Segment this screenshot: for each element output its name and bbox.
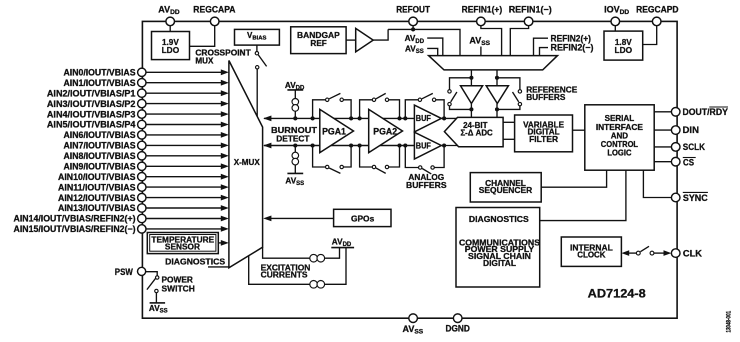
pin AIN6/IOUT/VBIAS — [64, 130, 229, 140]
wire serial to DOUT/RDY — [654, 111, 671, 113]
filter VARIABLE DIGITAL FILTER box — [515, 115, 573, 152]
pin AIN15/IOUT/VBIAS/REFIN2(−) — [14, 224, 229, 234]
svg-text:REF: REF — [310, 38, 326, 48]
op-amp reference amplifier — [356, 28, 374, 52]
pin AIN10/IOUT/VBIAS — [58, 172, 229, 182]
pin SYNC — [671, 192, 708, 202]
wire ref amp to REFOUT node — [373, 29, 388, 40]
pin AIN11/IOUT/VBIAS — [58, 182, 229, 192]
wire BUF1 output to ADC — [441, 117, 457, 119]
switch SW-vbias blade — [258, 55, 266, 67]
label POWER SWITCH — [162, 275, 195, 294]
switch internal clock to CLK — [621, 246, 671, 256]
pin AIN9/IOUT/VBIAS — [64, 162, 229, 172]
svg-text:AIN3/IOUT/VBIAS/P2: AIN3/IOUT/VBIAS/P2 — [47, 99, 136, 109]
wire ref mux to buffer 1 — [470, 70, 472, 86]
pin CS — [671, 157, 695, 167]
pin AIN0/IOUT/VBIAS — [64, 68, 229, 78]
wire serial to CS — [654, 161, 671, 163]
internal clock box — [561, 237, 621, 266]
wire SW-vbias to X-MUX — [256, 69, 258, 117]
svg-text:AIN8/IOUT/VBIAS: AIN8/IOUT/VBIAS — [64, 151, 136, 161]
pin PSW — [115, 267, 146, 277]
op-amp BUF2 — [414, 132, 441, 159]
svg-text:CURRENTS: CURRENTS — [261, 269, 308, 279]
svg-text:BUFFERS: BUFFERS — [526, 92, 565, 102]
pin REFOUT top — [396, 4, 430, 25]
svg-text:DGND: DGND — [446, 324, 471, 334]
svg-text:DOUT/RDY: DOUT/RDY — [683, 107, 728, 117]
svg-text:REGCAPD: REGCAPD — [636, 4, 679, 14]
temperature sensor box — [147, 233, 218, 254]
ADC 24-bit sigma-delta — [444, 117, 503, 146]
pin CLK — [671, 248, 702, 258]
wire ref buffer 1 to ADC — [470, 104, 472, 118]
bypass switch PGA1 top — [311, 93, 354, 120]
wire analog rail bottom — [263, 143, 414, 149]
wire REGCAPD to 1.8V LDO — [643, 26, 657, 45]
op-amp reference buffer 1 — [461, 86, 483, 104]
svg-text:PGA1: PGA1 — [322, 127, 346, 137]
svg-text:SCLK: SCLK — [683, 142, 706, 152]
label ANALOG BUFFERS — [406, 173, 447, 190]
svg-text:DIAGNOSTICS: DIAGNOSTICS — [165, 256, 225, 266]
pin AIN8/IOUT/VBIAS — [64, 151, 229, 161]
op-amp BUF1 — [414, 105, 441, 132]
svg-text:SYNC: SYNC — [683, 193, 708, 203]
pin AVSS bottom — [403, 314, 424, 336]
wire REGCAPA pin to 1.9V LDO — [190, 26, 215, 47]
wire ref buffer 2 to ADC — [496, 104, 498, 118]
svg-text:AIN1/IOUT/VBIAS: AIN1/IOUT/VBIAS — [64, 78, 136, 88]
power switch contact 1 — [156, 276, 159, 279]
svg-text:MUX: MUX — [195, 57, 214, 66]
svg-text:CLK: CLK — [683, 248, 703, 258]
wire channel sequencer to serial — [541, 170, 606, 187]
svg-text:FILTER: FILTER — [529, 135, 558, 144]
node ref buffer 1 output — [469, 107, 473, 111]
channel sequencer box — [470, 173, 541, 202]
bypass switch reference buffer 2 — [497, 78, 522, 110]
svg-text:AIN15/IOUT/VBIAS/REFIN2(−): AIN15/IOUT/VBIAS/REFIN2(−) — [14, 224, 136, 234]
wire excitation current 1 — [263, 247, 310, 258]
wire IOVDD to 1.8V LDO — [614, 26, 616, 31]
voltage source VBIAS box — [235, 29, 280, 45]
current source pair 2 — [310, 281, 325, 289]
svg-text:BUF: BUF — [416, 141, 431, 150]
wire serial to SYNC — [643, 170, 671, 197]
label EXCITATION CURRENTS — [261, 262, 311, 279]
op-amp PGA1 — [320, 109, 354, 152]
svg-text:AIN0/IOUT/VBIAS: AIN0/IOUT/VBIAS — [64, 68, 136, 78]
node buffer 2 input — [495, 76, 499, 80]
wire REFIN2(+) into reference mux — [534, 33, 592, 55]
pin REGCAPA top — [193, 4, 236, 25]
switch SW-vbias contact 2 — [256, 66, 259, 69]
serial interface and control logic box — [585, 105, 654, 170]
pin DGND bottom — [446, 314, 471, 334]
svg-text:REFOUT: REFOUT — [396, 4, 430, 14]
svg-text:13048-001: 13048-001 — [727, 310, 733, 332]
svg-text:DIAGNOSTICS: DIAGNOSTICS — [469, 214, 529, 224]
bypass switch reference buffer 1 — [448, 78, 472, 110]
svg-text:INTERFACE: INTERFACE — [596, 123, 644, 132]
power switch contact 2 — [155, 289, 158, 292]
pin AIN14/IOUT/VBIAS/REFIN2(+) — [14, 214, 229, 224]
svg-text:DIN: DIN — [683, 125, 700, 135]
regulator 1.9V LDO — [152, 32, 190, 60]
pin AIN1/IOUT/VBIAS — [64, 78, 229, 88]
svg-text:AIN14/IOUT/VBIAS/REFIN2(+): AIN14/IOUT/VBIAS/REFIN2(+) — [14, 214, 136, 224]
op-amp PGA2 — [369, 109, 403, 152]
wire diagnostics into X-MUX bottom — [208, 266, 229, 268]
node ref buffer 2 output — [495, 107, 499, 111]
svg-text:REFIN1(+): REFIN1(+) — [462, 4, 503, 14]
bypass switch PGA2 top — [358, 93, 402, 120]
svg-text:BUF: BUF — [416, 114, 431, 123]
svg-text:REFIN1(−): REFIN1(−) — [509, 4, 552, 14]
pin DIN — [671, 125, 699, 135]
wire ADC to filter top — [503, 121, 514, 123]
regulator 1.8V LDO — [604, 31, 643, 60]
svg-text:REFIN2(−): REFIN2(−) — [551, 43, 594, 53]
current source pair 1 — [310, 254, 325, 262]
wire REFOUT node to reference mux — [388, 29, 460, 55]
wire VBIAS to switch — [256, 45, 258, 51]
svg-text:REGCAPA: REGCAPA — [193, 4, 236, 14]
svg-text:CLOCK: CLOCK — [577, 249, 606, 259]
wire contact 2 to ground — [155, 293, 157, 303]
svg-text:AIN4/IOUT/VBIAS/P3: AIN4/IOUT/VBIAS/P3 — [47, 109, 136, 119]
svg-text:AIN9/IOUT/VBIAS: AIN9/IOUT/VBIAS — [64, 162, 136, 172]
wire serial to DIN — [654, 129, 671, 131]
svg-text:AIN6/IOUT/VBIAS: AIN6/IOUT/VBIAS — [64, 130, 136, 140]
pin AIN13/IOUT/VBIAS — [58, 203, 229, 213]
pin DOUT/RDY — [671, 107, 728, 117]
node REFOUT junction — [411, 27, 415, 31]
wire analog rail top — [263, 116, 414, 122]
wire current source 2 to AVDD bar — [325, 248, 346, 285]
svg-text:AIN7/IOUT/VBIAS: AIN7/IOUT/VBIAS — [64, 141, 136, 151]
wire AVDD stub to reference mux — [405, 34, 443, 55]
op-amp reference buffer 2 — [486, 86, 508, 104]
pin AIN7/IOUT/VBIAS — [64, 141, 229, 151]
label AVSS reference mux stub — [469, 35, 490, 55]
label CROSSPOINT MUX — [195, 48, 251, 65]
power bar AVDD excitation — [331, 237, 354, 248]
bypass switch PGA2 bottom — [358, 143, 402, 173]
multiplexer X-MUX body — [229, 61, 263, 268]
wire AVDD pin to 1.9V LDO — [169, 26, 171, 32]
svg-text:AIN10/IOUT/VBIAS: AIN10/IOUT/VBIAS — [58, 172, 136, 182]
chip outline border — [142, 21, 677, 318]
wire serial to SCLK — [654, 146, 671, 148]
wire diagnostics to serial — [540, 170, 626, 220]
wire ref mux to buffer 2 — [496, 70, 498, 86]
svg-text:Σ-Δ ADC: Σ-Δ ADC — [460, 128, 492, 138]
svg-text:PGA2: PGA2 — [373, 127, 397, 137]
label BURNOUT DETECT — [271, 125, 318, 143]
switch SW-vbias contact 1 — [255, 52, 258, 55]
wire REFIN1(-) to reference mux — [510, 26, 528, 56]
GPOs box — [334, 209, 391, 226]
power switch blade — [147, 278, 156, 289]
wire BUF2 output to ADC — [441, 145, 458, 147]
current source burnout bottom AVSS — [285, 143, 304, 187]
svg-text:LDO: LDO — [162, 45, 180, 55]
wire current source 1 to AVDD bar — [325, 248, 340, 259]
label REFERENCE BUFFERS — [526, 84, 577, 102]
svg-text:AIN2/IOUT/VBIAS/P1: AIN2/IOUT/VBIAS/P1 — [47, 88, 136, 98]
svg-text:AIN11/IOUT/VBIAS: AIN11/IOUT/VBIAS — [58, 182, 136, 192]
svg-text:LOGIC: LOGIC — [607, 148, 631, 157]
svg-text:SENSOR: SENSOR — [165, 243, 200, 252]
current source burnout top AVDD — [285, 81, 305, 121]
svg-text:LDO: LDO — [615, 45, 633, 55]
svg-text:DIGITAL: DIGITAL — [483, 258, 516, 268]
pin AVDD top — [158, 4, 180, 25]
pin AIN3/IOUT/VBIAS/P2 — [47, 99, 229, 109]
svg-text:GPOs: GPOs — [351, 213, 375, 223]
bypass switch PGA1 bottom — [311, 143, 354, 173]
pin IOVDD top — [604, 4, 629, 25]
svg-text:X-MUX: X-MUX — [234, 158, 261, 167]
wire REFOUT pin drop — [412, 26, 414, 30]
wire REFIN2(-) into reference mux — [540, 43, 594, 56]
svg-text:AIN13/IOUT/VBIAS: AIN13/IOUT/VBIAS — [58, 203, 136, 213]
svg-text:AIN5/IOUT/VBIAS/P4: AIN5/IOUT/VBIAS/P4 — [47, 120, 136, 130]
svg-text:PSW: PSW — [115, 267, 133, 277]
multiplexer reference trapezoid — [429, 56, 558, 70]
bandgap reference box — [291, 27, 346, 54]
svg-text:SWITCH: SWITCH — [162, 283, 195, 293]
wire REFIN1(+) to reference mux — [481, 26, 502, 56]
arrow GPOs to X-MUX — [263, 216, 333, 222]
bypass switch BUF top — [403, 93, 446, 120]
svg-text:CS: CS — [683, 158, 694, 168]
svg-text:SERIAL: SERIAL — [605, 114, 635, 123]
wire filter to serial interface — [573, 129, 585, 131]
svg-text:AIN12/IOUT/VBIAS: AIN12/IOUT/VBIAS — [58, 193, 136, 203]
ground bar AVSS power switch — [150, 302, 166, 304]
svg-text:AD7124-8: AD7124-8 — [588, 288, 647, 301]
arrow temperature sensor to X-MUX — [218, 240, 229, 246]
pin REFIN1(+) top — [462, 4, 503, 25]
wire AVSS stub to reference mux — [405, 45, 438, 56]
pin SCLK — [671, 142, 705, 152]
pin AIN4/IOUT/VBIAS/P3 — [47, 109, 229, 119]
svg-text:SEQUENCER: SEQUENCER — [479, 185, 533, 195]
bypass switch BUF bottom — [403, 143, 446, 173]
wire ADC to filter bottom — [503, 138, 514, 140]
svg-text:BUFFERS: BUFFERS — [406, 181, 447, 190]
svg-text:DETECT: DETECT — [276, 133, 310, 143]
wire PSW to switch contact — [146, 272, 158, 276]
diagnostics block box — [456, 208, 540, 288]
pin REGCAPD top — [636, 4, 679, 25]
wire excitation current 2 — [249, 256, 310, 285]
pin AIN12/IOUT/VBIAS — [58, 193, 229, 203]
pin AIN2/IOUT/VBIAS/P1 — [47, 88, 229, 98]
pin REFIN1(-) top — [509, 4, 552, 25]
node buffer 1 input — [469, 76, 473, 80]
wire bandgap to ref amp — [346, 39, 356, 41]
pin AIN5/IOUT/VBIAS/P4 — [47, 120, 229, 130]
